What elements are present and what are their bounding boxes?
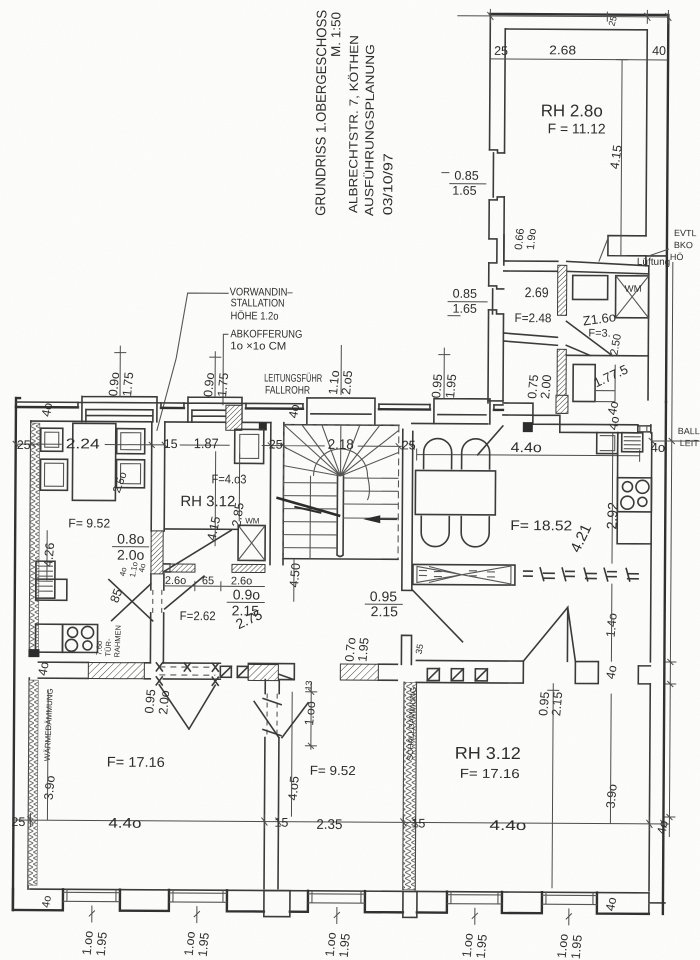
svg-text:F= 9.52: F= 9.52 <box>68 516 110 530</box>
wall wc/stair x271-284 <box>270 423 284 565</box>
stair bottom edge <box>283 558 398 561</box>
bottom mid-wall pier blocks <box>264 891 290 917</box>
svg-text:RH 2.8o: RH 2.8o <box>541 101 603 120</box>
svg-text:0.9o: 0.9o <box>233 586 261 602</box>
svg-text:40: 40 <box>652 44 666 58</box>
dim text 0.85/1.65 lower window <box>453 287 478 316</box>
left wall insulation hatch (Waermedaemmung) <box>29 423 39 653</box>
bottom window1 sills <box>63 889 120 901</box>
svg-text:1.75: 1.75 <box>215 372 231 398</box>
top wall pier segments at y407 <box>16 407 503 410</box>
vertical dim line right x=620 <box>615 60 628 256</box>
svg-text:4o: 4o <box>606 415 622 431</box>
hatched piece mid wall left <box>88 662 144 678</box>
annotation VORWANDINSTALLATION <box>229 286 323 397</box>
svg-text:Lüftung: Lüftung <box>637 257 670 268</box>
bottom wall inner face <box>30 889 649 893</box>
annex left wall outer <box>488 14 490 403</box>
leader line from ABKOFFERUNG to shaft <box>223 334 228 405</box>
svg-text:STALLATION: STALLATION <box>231 297 285 309</box>
svg-text:4o: 4o <box>286 403 302 419</box>
top window1 nested reveals <box>78 396 161 422</box>
svg-text:WM: WM <box>245 516 260 525</box>
svg-text:BKO: BKO <box>674 240 693 250</box>
kitchen stove 4 circles <box>62 624 97 652</box>
front-left room door swing V <box>159 685 215 729</box>
svg-text:4.4o: 4.4o <box>511 439 542 455</box>
switch boxes in mid wall <box>220 666 248 677</box>
stair section cut line <box>276 498 340 516</box>
svg-text:1o ×1o CM: 1o ×1o CM <box>230 340 286 352</box>
schalldaemmung wall x406-418 <box>403 682 416 889</box>
svg-text:F= 17.16: F= 17.16 <box>460 766 520 781</box>
wall stair/room x399-412 <box>401 429 412 664</box>
top wall inner face <box>31 421 488 426</box>
dashed door mid wall (kitchen to front room) <box>159 667 215 675</box>
svg-text:BALL: BALL <box>678 426 700 436</box>
svg-text:1.75: 1.75 <box>120 371 136 397</box>
svg-text:65: 65 <box>202 575 214 587</box>
svg-text:RH 3.12: RH 3.12 <box>180 493 235 510</box>
bottom wall heavy stepped contour <box>13 889 649 914</box>
svg-text:LEITUNGSFÜHR: LEITUNGSFÜHR <box>264 373 322 385</box>
svg-text:1.oo: 1.oo <box>302 701 318 727</box>
chair arcs bottom <box>421 516 449 546</box>
svg-text:RH 3.12: RH 3.12 <box>455 744 521 763</box>
switch boxes right room wall <box>427 669 487 681</box>
svg-text:F=4.o3: F=4.o3 <box>211 472 246 486</box>
kitchen sink unit top-left <box>41 428 63 451</box>
black box on kitchen wall <box>523 422 533 432</box>
svg-text:1.65: 1.65 <box>453 302 477 316</box>
hatched wall piece upper <box>558 265 567 315</box>
stair newel center line <box>337 476 343 557</box>
svg-text:03/10/97: 03/10/97 <box>380 153 395 215</box>
svg-text:2.35: 2.35 <box>316 816 342 832</box>
top window4 nested reveals <box>430 399 494 424</box>
svg-text:AUSFÜHRUNGSPLANUNG: AUSFÜHRUNGSPLANUNG <box>362 44 377 216</box>
svg-text:2.15: 2.15 <box>371 603 399 619</box>
kitchen radiator <box>36 561 55 598</box>
svg-text:M. 1:50: M. 1:50 <box>328 12 343 57</box>
svg-text:1.87: 1.87 <box>194 435 219 451</box>
svg-text:15: 15 <box>164 437 178 451</box>
svg-text:25: 25 <box>11 815 25 829</box>
svg-text:4o: 4o <box>40 895 54 909</box>
svg-text:0.95: 0.95 <box>370 588 398 604</box>
wc inner partition line <box>164 528 238 530</box>
svg-text:1.95: 1.95 <box>337 933 353 959</box>
right room top wall y658-680 <box>416 660 650 683</box>
stair left dashed edge <box>282 425 285 559</box>
dashed door in kitchen/hall wall <box>153 590 162 613</box>
svg-text:F=3.: F=3. <box>588 327 610 339</box>
svg-text:0.8o: 0.8o <box>117 531 145 547</box>
bottom window2 sills <box>169 890 227 902</box>
svg-text:EVTL: EVTL <box>674 228 697 238</box>
svg-text:15: 15 <box>411 816 425 830</box>
hatched piece in kitchen/hall wall <box>151 531 163 574</box>
svg-text:1.95: 1.95 <box>443 373 459 399</box>
dining table <box>415 470 495 514</box>
svg-text:2.24: 2.24 <box>66 435 100 451</box>
annex left wall inner <box>503 29 505 401</box>
bath fixture lower <box>573 364 595 401</box>
svg-text:4o: 4o <box>35 660 51 676</box>
svg-text:RAHMEN: RAHMEN <box>112 625 122 658</box>
wc fixture rect <box>235 429 264 463</box>
balcony door in back wall <box>638 425 651 433</box>
svg-text:1.95: 1.95 <box>94 931 110 957</box>
chair arcs top <box>424 438 452 468</box>
stair winder fan <box>284 425 399 477</box>
wm room right wall inner <box>647 266 650 400</box>
hatched wall piece lower <box>557 349 566 413</box>
bottom window5 sills <box>542 892 597 904</box>
svg-text:1.9o: 1.9o <box>525 228 539 250</box>
dim line 4.40 top of room <box>417 448 640 461</box>
washing machine WM box <box>616 276 649 318</box>
door 0.95/2.15 dashes in stair/room wall <box>413 590 463 641</box>
svg-text:3.9o: 3.9o <box>604 783 620 809</box>
bath top wall <box>504 261 649 274</box>
svg-text:2.6o: 2.6o <box>165 575 186 587</box>
wc washing machine <box>238 525 265 560</box>
mid horizontal wall y662-678 <box>38 662 397 680</box>
top window3 nested reveals (stair) <box>303 398 379 425</box>
hatched piece mid wall second <box>248 664 278 680</box>
hatched piece mid wall center <box>340 664 378 680</box>
svg-text:0.85: 0.85 <box>453 287 477 301</box>
stair right dashed edge <box>397 425 400 559</box>
svg-text:4o: 4o <box>605 400 621 416</box>
annex bottom-right notch wall <box>608 236 667 266</box>
kitchen tall cabinet <box>72 423 115 500</box>
bottom dim ticks <box>89 905 572 925</box>
bottom window4 sills <box>447 892 502 904</box>
bath inner wall below 2.69 room <box>503 333 557 345</box>
black corner marker <box>28 649 39 657</box>
svg-text:2.0o: 2.0o <box>117 547 145 563</box>
svg-text:F=2.62: F=2.62 <box>180 609 216 623</box>
kitchen counter right <box>617 433 652 544</box>
door swing diagonal Z1.60 <box>566 321 612 355</box>
annex inner wall top/right <box>504 29 647 236</box>
wardrobe with X pattern <box>413 564 515 585</box>
stair left flight treads <box>283 483 337 548</box>
svg-text:4.50: 4.50 <box>287 562 303 588</box>
dim text 0.85/1.65 upper window <box>452 169 479 198</box>
back wall right of annex (kitchen north wall) <box>488 401 651 433</box>
svg-text:25: 25 <box>494 44 508 58</box>
bottom right corner block <box>649 893 665 914</box>
svg-text:ABKOFFERUNG: ABKOFFERUNG <box>230 328 302 340</box>
EVTL note right margin <box>670 228 697 262</box>
svg-text:4.4o: 4.4o <box>108 815 141 831</box>
wc door swing diagonals <box>165 530 231 609</box>
door swing from bath door <box>478 426 503 455</box>
annex top dimension line <box>457 9 671 24</box>
svg-text:2.18: 2.18 <box>328 436 354 452</box>
ANNEX top-right: outer walls <box>488 14 668 404</box>
svg-text:2.0o: 2.0o <box>156 690 172 716</box>
svg-text:1.95: 1.95 <box>474 934 490 960</box>
dim line under top wall <box>490 59 668 60</box>
svg-text:4o: 4o <box>651 440 666 455</box>
svg-text:25: 25 <box>402 438 416 452</box>
svg-text:HÖHE 1.2o: HÖHE 1.2o <box>230 310 278 322</box>
sink unit <box>597 433 618 454</box>
svg-text:2.69: 2.69 <box>525 284 549 300</box>
svg-text:F= 9.52: F= 9.52 <box>310 763 356 778</box>
dim line y444 with ticks <box>13 441 415 449</box>
svg-text:GRUNDRISS 1.OBERGESCHOSS: GRUNDRISS 1.OBERGESCHOSS <box>312 10 329 216</box>
bottom window3 sills <box>308 891 365 903</box>
stair down arrow <box>369 518 396 520</box>
svg-text:ALBRECHTSTR. 7, KÖTHEN: ALBRECHTSTR. 7, KÖTHEN <box>346 35 361 213</box>
stair right flight treads <box>343 478 398 518</box>
outer dimension line right margin <box>663 262 679 837</box>
annex outer wall <box>488 14 668 402</box>
shower fixture upper <box>573 275 608 299</box>
svg-text:3.9o: 3.9o <box>42 775 58 801</box>
leader line from VORWAND text to plan <box>157 293 229 431</box>
bottom dim texts 1.00/1.95 rotated pairs <box>80 930 585 960</box>
svg-text:F = 11.12: F = 11.12 <box>548 120 606 136</box>
svg-text:F=2.48: F=2.48 <box>514 311 551 325</box>
svg-text:25: 25 <box>17 438 31 452</box>
wc bottom wall hatched pieces <box>170 564 195 572</box>
svg-text:F= 18.52: F= 18.52 <box>510 517 572 533</box>
svg-text:2.15: 2.15 <box>549 691 565 717</box>
svg-text:HÖ: HÖ <box>670 252 684 262</box>
wall between front rooms x267-281 <box>264 680 279 889</box>
door swing front-middle <box>254 701 308 737</box>
svg-text:WM: WM <box>625 284 642 295</box>
right outer wall <box>663 402 666 914</box>
wall kitchen/hall x152-165 <box>150 422 164 663</box>
kitchen door swing diagonal <box>109 580 153 621</box>
stair top dashed edge <box>284 424 399 427</box>
svg-text:4o: 4o <box>39 402 55 418</box>
top window2 nested reveals <box>184 397 246 422</box>
svg-text:1.95: 1.95 <box>355 637 371 663</box>
left outer wall <box>28 421 31 889</box>
svg-text:0.85: 0.85 <box>454 169 478 183</box>
svg-text:15: 15 <box>274 816 288 830</box>
shaft hatched near annex <box>556 395 568 413</box>
stair mid rail line <box>309 476 312 559</box>
stove right 4 circles <box>617 478 651 512</box>
annex left window 0.85/1.65 lower: jamb steps <box>489 286 504 314</box>
bottom left corner block <box>12 889 15 910</box>
svg-text:35: 35 <box>414 643 426 655</box>
svg-text:1.65: 1.65 <box>452 184 476 198</box>
svg-text:1.95: 1.95 <box>196 932 212 958</box>
dishwasher lines <box>622 433 643 452</box>
fallrohr black square <box>259 422 267 430</box>
main top wall outer with window bumps <box>13 398 20 910</box>
svg-text:LEIT: LEIT <box>680 438 700 448</box>
svg-text:F= 17.16: F= 17.16 <box>107 754 165 770</box>
title text GRUNDRISS 1.OBERGESCHOSS M.1:50 (rotated) <box>312 10 396 217</box>
abkofferung shaft hatched <box>226 405 242 430</box>
svg-text:4o: 4o <box>655 819 671 835</box>
svg-text:25: 25 <box>269 438 283 452</box>
main dim line y820 <box>13 820 669 824</box>
svg-text:4.o5: 4.o5 <box>286 775 302 801</box>
svg-text:1.95: 1.95 <box>569 934 585 960</box>
svg-text:4o: 4o <box>603 896 619 912</box>
svg-text:FALLROHR: FALLROHR <box>265 385 310 397</box>
svg-text:2.68: 2.68 <box>549 43 576 57</box>
svg-text:13: 13 <box>303 680 314 691</box>
annex left window 0.85/1.65 upper: jamb steps <box>489 150 504 200</box>
kitchen right cabinets <box>117 429 145 454</box>
door swing triangle right room <box>523 607 567 661</box>
svg-text:2.00: 2.00 <box>538 374 554 400</box>
annex left wall niche 0.66/1.90 <box>489 235 504 265</box>
dashed door front-left wall <box>267 694 277 738</box>
svg-text:4.4o: 4.4o <box>489 817 526 833</box>
removed-wall dash marks row <box>523 567 639 582</box>
stair walking arc <box>314 449 368 476</box>
svg-text:4o: 4o <box>603 664 619 680</box>
BATH BLOCK below annex <box>447 235 649 432</box>
